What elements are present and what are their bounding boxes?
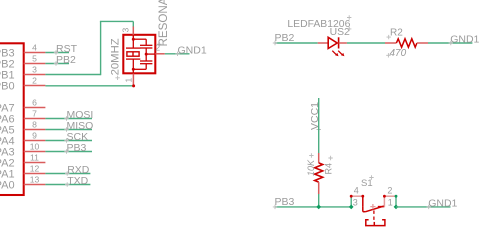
resistor R2 zigzag: [396, 39, 417, 47]
switch S1 plunger dashed link: [373, 211, 375, 223]
pin 8 (PA5) stub: [24, 129, 46, 131]
svg-text:4: 4: [32, 43, 37, 53]
net label PB3 (bottom): [273, 205, 277, 209]
switch S1 button bracket: [366, 220, 385, 226]
net label RXD: [65, 171, 69, 175]
resonator pin 2 stub (right): [155, 53, 165, 55]
net label PB2: [54, 61, 58, 65]
wire RST (pin 4): [45, 52, 69, 54]
svg-text:PA0: PA0: [0, 180, 15, 192]
resistor R2 name: [387, 35, 391, 39]
net label SCK: [64, 138, 68, 142]
switch S1 right contact (pins 2/1): [383, 196, 385, 206]
net label MOSI: [64, 116, 68, 120]
svg-text:R4: R4: [324, 163, 334, 175]
svg-text:PB3: PB3: [275, 196, 295, 208]
pin 5 (PB2) stub: [24, 63, 46, 65]
pin 7 (PA6) stub: [24, 118, 46, 120]
net label PB3: [64, 149, 68, 153]
svg-text:GND1: GND1: [178, 44, 207, 56]
LED US2 triangle and cathode bar: [328, 37, 337, 48]
wire XTAL2 from pin 2 to resonator pin 1: [45, 85, 134, 87]
net label GND1 (top right): [449, 41, 453, 45]
switch S1 name: [369, 175, 373, 179]
resonator name RESONATOR (clipped at top): [157, 42, 161, 46]
wire R4 to PB3 net: [318, 194, 320, 207]
pin 6 (PA7) stub: [24, 107, 46, 109]
svg-text:20MHZ: 20MHZ: [109, 38, 121, 75]
wire PB2 net (top right): [275, 42, 318, 44]
wire RXD (pin 12): [45, 173, 90, 175]
svg-text:11: 11: [30, 153, 39, 163]
wire GND from resonator pin 2: [165, 53, 190, 55]
wire VCC to R4: [318, 98, 320, 153]
pin 10 (PA3) stub: [24, 151, 46, 153]
svg-text:8: 8: [32, 120, 37, 130]
svg-text:LEDFAB1206: LEDFAB1206: [287, 19, 350, 30]
svg-text:12: 12: [30, 164, 40, 174]
svg-text:GND1: GND1: [450, 33, 479, 45]
power label VCC1: [317, 127, 321, 131]
svg-text:7: 7: [32, 109, 37, 119]
svg-text:3: 3: [32, 65, 37, 75]
svg-text:1: 1: [388, 198, 393, 208]
svg-text:TXD: TXD: [67, 175, 88, 187]
svg-text:S1: S1: [361, 178, 373, 189]
wire PB2 (pin 5): [45, 63, 69, 65]
LED US2 anode stub: [318, 42, 329, 44]
junction at R4/PB3: [316, 205, 321, 210]
resonator Q1 body: [123, 35, 155, 74]
resistor R4 zigzag: [315, 163, 323, 182]
resistor R2 right stub: [417, 42, 428, 44]
pin 9 (PA4) stub: [24, 140, 46, 142]
LED light arrows: [332, 51, 336, 55]
svg-text:PB3: PB3: [67, 142, 87, 154]
junction at switch pin 3: [349, 205, 354, 210]
resistor R2 left stub: [385, 42, 396, 44]
svg-text:3: 3: [353, 198, 358, 208]
net label TXD: [65, 182, 69, 186]
svg-text:9: 9: [32, 131, 37, 141]
resistor R4 value 10K: [309, 153, 313, 157]
resistor R4 name: [328, 156, 332, 160]
pin 4 (PB3) stub: [24, 52, 46, 54]
svg-text:PB2: PB2: [275, 32, 295, 44]
svg-text:10: 10: [30, 142, 40, 152]
svg-text:GND1: GND1: [428, 197, 457, 209]
svg-text:5: 5: [32, 54, 37, 64]
resonator pin 1 stub (bottom): [132, 74, 134, 87]
net label PB2 (led row): [273, 41, 277, 45]
wire SCK (pin 9): [45, 140, 92, 142]
svg-text:3: 3: [121, 28, 131, 33]
wire XTAL1 from pin 3 to resonator pin 3: [45, 74, 100, 76]
net label GND1 (resonator): [175, 52, 179, 56]
svg-text:PB2: PB2: [56, 54, 76, 66]
svg-text:RESONATOR: RESONATOR: [157, 0, 170, 47]
net label RST: [54, 50, 58, 54]
IC U? (microcontroller, clipped at left edge): [0, 43, 24, 195]
switch S1 lever: [362, 207, 364, 212]
pin 3 (PB1) stub: [24, 74, 46, 76]
junction at switch pin 1: [394, 205, 399, 210]
pin 12 (PA1) stub: [24, 173, 46, 175]
svg-text:13: 13: [30, 175, 40, 185]
wire MOSI (pin 7): [45, 118, 92, 120]
wire PB3 net (bottom): [275, 206, 351, 208]
svg-text:R2: R2: [390, 28, 403, 39]
net label GND1 (bottom right): [427, 205, 431, 209]
wire MISO (pin 8): [45, 129, 92, 131]
svg-text:10K: 10K: [306, 159, 316, 176]
resonator value 20MHZ: [115, 76, 119, 80]
svg-text:470: 470: [390, 48, 407, 59]
wire R2 to GND: [428, 42, 472, 44]
net label MISO: [64, 127, 68, 131]
wire TXD (pin 13): [45, 184, 90, 186]
svg-text:2: 2: [387, 186, 392, 196]
resonator pin 3 stub (top): [132, 27, 134, 40]
pin 13 (PA0) stub: [24, 184, 46, 186]
wire LED to R2: [347, 42, 385, 44]
svg-text:6: 6: [32, 98, 37, 108]
resistor R4 bottom stub: [318, 182, 320, 194]
svg-text:PB0: PB0: [0, 81, 15, 93]
svg-text:4: 4: [354, 186, 359, 196]
wire switch to GND (bottom right): [396, 206, 451, 208]
resistor R4 top stub: [318, 153, 320, 163]
wire PB3 (pin 10): [45, 151, 92, 153]
pin 2 (PB0) stub: [24, 85, 46, 87]
pin 11 (PA2) stub: [24, 162, 46, 164]
svg-text:2: 2: [32, 76, 37, 86]
resistor R2 value 470: [386, 53, 390, 57]
svg-text:1: 1: [124, 78, 134, 83]
switch S1 left contact (pins 4/3): [350, 196, 352, 207]
resonator internals: crystal + two caps: [132, 35, 134, 48]
LED US2 cathode stub: [339, 42, 347, 44]
